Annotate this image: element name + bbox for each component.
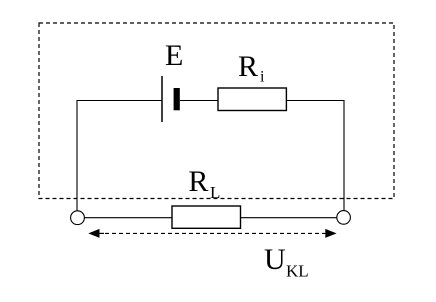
- wire: left vertical down to terminal K: [76, 100, 78, 211]
- svg-text:KL: KL: [286, 262, 309, 281]
- svg-text:E: E: [165, 39, 183, 72]
- source box (dashed outline of voltage source): [39, 23, 394, 199]
- resistor Ri: [218, 88, 286, 111]
- wire: terminal K to resistor RL: [84, 217, 172, 219]
- wire: battery to resistor Ri: [180, 100, 218, 102]
- battery E (voltage source plates): [162, 76, 180, 122]
- svg-text:L: L: [210, 183, 220, 202]
- terminal K (left circle): [71, 211, 85, 225]
- wire: left horizontal from node to battery: [77, 100, 163, 102]
- svg-text:U: U: [264, 243, 286, 276]
- terminal L (right circle): [337, 211, 351, 225]
- svg-text:R: R: [238, 50, 258, 83]
- wire: right vertical down to terminal L: [343, 100, 345, 211]
- voltage arrow UKL (dashed, double headed): [88, 229, 336, 238]
- resistor RL: [172, 206, 241, 228]
- svg-text:i: i: [260, 69, 265, 86]
- wire: resistor Ri to right corner: [286, 100, 344, 102]
- svg-text:R: R: [188, 165, 208, 198]
- wire: resistor RL to terminal L: [241, 217, 337, 219]
